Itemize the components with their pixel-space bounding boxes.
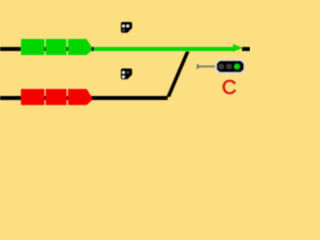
node: green occupied block 2 — [46, 39, 67, 55]
signal C lamp 1 (dark) — [218, 64, 224, 70]
wire: green route line — [94, 47, 234, 51]
signal C lamp 3 (green lit) — [234, 64, 240, 70]
point indicator icon P1 (upper) — [121, 22, 132, 33]
wire: turnout diagonal — [166, 52, 189, 98]
node: red occupied block 2 — [46, 89, 67, 105]
node: green route arrowhead — [233, 44, 243, 52]
signal C lamp 2 (dark) — [226, 64, 232, 70]
wire: bottom track black line (runs under blocks, to turnout) — [0, 96, 168, 100]
wire: top track black segment right — [242, 47, 250, 51]
signal C head — [216, 60, 245, 73]
point indicator icon P2 (lower) — [121, 68, 132, 79]
node: green occupied block 1 — [21, 39, 44, 55]
signal C mast line — [198, 66, 216, 68]
node: red occupied block 1 — [21, 89, 44, 105]
signal C mast T-bar — [197, 64, 199, 69]
wire: top track black line (runs under blocks) — [0, 47, 95, 51]
node: green occupied block 3 with arrow tip — [68, 39, 91, 55]
node: red occupied block 3 with arrow tip — [68, 89, 91, 105]
svg-text:C: C — [222, 76, 237, 99]
